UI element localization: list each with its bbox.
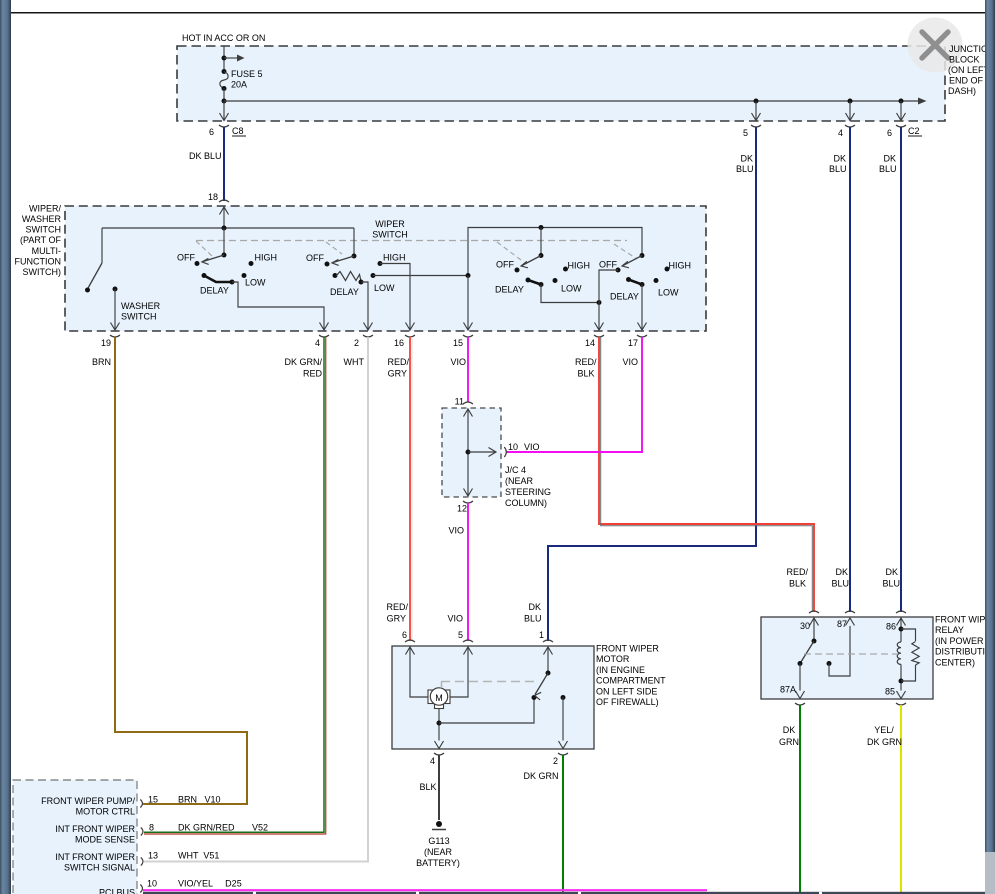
switch 1 DELAY contact bar [202,273,207,278]
svg-text:BLU: BLU [829,164,847,174]
svg-text:BLK: BLK [419,782,436,792]
wire bus horizontal [224,100,919,102]
wire DK GRN relay 87A down [799,705,801,894]
svg-text:11: 11 [455,397,464,407]
module bump pin 8 [141,828,143,836]
svg-text:DK: DK [833,154,846,164]
module bump pin 15 [140,800,142,808]
module bump pin 10 [140,885,142,893]
wire drop pin 5 [755,101,757,120]
motor M symbol [428,690,434,704]
node bus2 sw3 tap [539,225,544,230]
svg-text:1: 1 [539,630,544,640]
wire VIO/YEL bus [143,889,707,891]
connector bump pin 6 C8 [219,125,229,127]
top window border line [11,12,985,14]
svg-text:GRN: GRN [779,737,799,747]
connector bumps bottom of switch box [110,335,120,337]
node bus2 pin15 junction [466,273,471,278]
relay bumps top [809,611,819,613]
relay bumps bottom [795,703,805,705]
svg-text:8: 8 [149,823,154,833]
svg-text:BLU: BLU [882,579,900,589]
junction block box [177,46,945,121]
switch 2 HIGH contact [378,261,383,266]
switch 3 HIGH contact [563,267,568,272]
linkage diag sw1 [196,241,212,256]
wire fuse to bus [223,89,225,102]
wire DK BLU junction pin4 to relay 87 [849,127,851,612]
svg-text:LOW: LOW [245,278,266,288]
svg-text:HOT IN ACC OR ON: HOT IN ACC OR ON [182,33,265,43]
wire drop pin 6 [900,101,902,120]
svg-text:VIO: VIO [447,614,463,624]
svg-text:86: 86 [886,622,896,632]
svg-text:BLU: BLU [831,579,849,589]
motor park contact branch [439,698,534,724]
wire BLK motor pin4 to ground [438,755,440,820]
svg-text:2: 2 [354,338,359,348]
switch 2 OFF contact [325,262,330,267]
svg-text:RED/: RED/ [386,602,408,612]
relay coil pin86 [897,618,906,626]
svg-text:DK: DK [885,567,898,577]
node bus tap 4 [848,99,853,104]
wire DK BLU fuse to switch pin 18 [223,127,225,201]
relay NO contact to 87 [827,661,832,666]
motor linkage dashed [441,681,537,683]
mechanical linkage dashed [196,240,627,242]
svg-text:DK: DK [835,567,848,577]
svg-text:DK GRN/RED V52: DK GRN/RED V52 [178,823,268,833]
wire run contact to pin2 [562,698,564,741]
wire pin14 drop [598,303,600,330]
svg-text:J/C 4: J/C 4 [505,465,526,475]
svg-text:(PART OF: (PART OF [20,235,62,245]
washer switch contact [113,287,118,292]
svg-text:C8: C8 [232,126,244,136]
switch 4 arm [623,256,642,266]
wire pin15 drop [467,276,469,330]
fuse F5 20A [222,69,227,74]
svg-text:GRY: GRY [387,614,406,624]
svg-text:BRN V10: BRN V10 [178,795,221,805]
close button [908,18,963,73]
svg-text:WIPER: WIPER [375,219,405,229]
svg-text:OFF: OFF [599,260,617,270]
svg-text:DK: DK [883,154,896,164]
JC4 pin 10 bump [504,447,506,457]
switch 1 arm [203,255,224,262]
switch 2 arm [333,256,354,263]
svg-text:10: 10 [147,879,157,889]
switch 3 pivot feed [540,228,542,256]
svg-text:10: 10 [508,442,518,452]
switch 3 LOW contact [553,278,558,283]
svg-text:ON LEFT SIDE: ON LEFT SIDE [596,686,657,696]
connector bump pin 5 C2 [751,125,761,127]
motor run contact [561,695,566,700]
wire DK BLU junction pin5 to motor pin1 [548,127,756,641]
svg-text:DK: DK [528,602,541,612]
svg-text:15: 15 [453,338,463,348]
wire sw4 delay to pin 17 [641,285,643,330]
svg-text:LOW: LOW [658,288,679,298]
svg-text:18: 18 [208,192,218,202]
svg-text:DELAY: DELAY [610,292,639,302]
svg-text:14: 14 [585,338,595,348]
wire sw1 delay to pin 4 [232,282,324,330]
svg-text:FUSE 5: FUSE 5 [231,69,263,79]
wire RED/GRY pin16 to motor pin6 [409,337,411,641]
svg-text:SWITCH): SWITCH) [23,267,62,277]
svg-text:DELAY: DELAY [495,285,524,295]
switch 1 pivot feed [223,228,225,255]
washer switch feed [101,228,103,263]
svg-text:BLOCK: BLOCK [949,55,980,65]
svg-text:87: 87 [837,619,847,629]
svg-text:BLK: BLK [789,579,806,589]
relay parallel resistor [901,629,916,641]
motor pin5 internal [464,647,473,655]
body control module box (bottom left) [13,780,137,894]
svg-text:DK GRN: DK GRN [867,737,902,747]
svg-text:FUNCTION: FUNCTION [15,256,62,266]
switch 3 DELAY contact bar [526,278,531,283]
switch 1 LOW contact [242,273,247,278]
JC4 internal wire [464,409,473,417]
svg-text:OFF: OFF [306,253,324,263]
JC4 node [466,450,471,455]
switch 1 OFF contact [195,261,200,266]
svg-text:STEERING: STEERING [505,487,551,497]
svg-text:OF FIREWALL): OF FIREWALL) [596,697,659,707]
wiper/washer switch box [65,206,706,331]
svg-text:4: 4 [315,338,320,348]
washer switch arm [88,263,103,289]
svg-text:(IN POWER: (IN POWER [935,636,984,646]
switch 4 OFF contact [616,268,621,273]
svg-text:19: 19 [101,338,111,348]
svg-text:DASH): DASH) [948,86,976,96]
svg-text:15: 15 [148,795,158,805]
wire feed into fuse [223,46,225,71]
svg-text:WHT: WHT [344,357,365,367]
module bump pin 13 [141,858,143,866]
svg-text:G113: G113 [428,836,449,846]
svg-text:MOTOR: MOTOR [596,654,630,664]
switch 4 LOW contact [654,278,659,283]
svg-text:RELAY: RELAY [935,625,964,635]
wire BRN pin19 to module pin15 [115,337,247,804]
relay arm to 87A [799,664,801,691]
front wiper relay box [761,617,933,699]
relay switch arm [800,641,814,664]
svg-text:COLUMN): COLUMN) [505,498,547,508]
arrow tap right [224,57,238,59]
svg-text:20A: 20A [231,80,247,90]
wire WHT pin2 to module pin13 [144,337,368,862]
svg-text:COMPARTMENT: COMPARTMENT [596,676,666,686]
linkage diag sw4 [614,244,637,259]
svg-text:12: 12 [457,504,467,514]
svg-text:VIO: VIO [524,442,540,452]
switch 2 DELAY resistor [333,273,338,278]
node bus left [222,99,227,104]
node bus tap 6 [899,99,904,104]
svg-text:SWITCH SIGNAL: SWITCH SIGNAL [64,863,135,873]
relay linkage dashed [804,653,898,655]
svg-text:2: 2 [553,756,558,766]
wire sw2 HIGH to pin 16 [380,264,410,330]
svg-text:RED: RED [303,369,323,379]
wire sw4 OFF to pin14 node [599,270,618,303]
svg-text:4: 4 [838,128,843,138]
switch 1 HIGH contact [249,261,254,266]
svg-text:YEL/: YEL/ [874,725,894,735]
svg-text:C2: C2 [908,126,920,136]
switch 2 pivot feed [353,228,355,256]
svg-text:(ON LEFT: (ON LEFT [948,65,990,75]
connector bump pin 18 [219,200,229,202]
svg-text:MOTOR CTRL: MOTOR CTRL [76,807,135,817]
svg-text:END OF: END OF [949,76,984,86]
svg-text:LOW: LOW [561,284,582,294]
motor bottom to pin4 [438,709,440,741]
svg-text:BLU: BLU [879,164,897,174]
svg-text:WHT V51: WHT V51 [178,851,219,861]
svg-text:85: 85 [885,687,895,697]
switch 3 OFF contact [515,268,520,273]
svg-text:CENTER): CENTER) [935,657,975,667]
svg-text:(NEAR: (NEAR [505,476,534,486]
JC4 pin 12 bump [463,501,473,503]
svg-text:(NEAR: (NEAR [424,847,453,857]
svg-text:5: 5 [743,128,748,138]
node bus1 pin18 [222,226,227,231]
svg-text:GRY: GRY [388,369,407,379]
svg-text:RED/: RED/ [786,567,808,577]
wire bus1 [102,227,354,229]
pin 18 entry arrow [220,207,229,215]
wire sw2 delay to pin 2 [361,282,368,330]
svg-text:INT FRONT WIPER: INT FRONT WIPER [55,852,135,862]
wire RED/BLK pin14 to relay 30 [599,337,814,612]
svg-text:HIGH: HIGH [669,261,692,271]
linkage diag sw2 [326,242,342,254]
svg-text:INT FRONT WIPER: INT FRONT WIPER [55,824,135,834]
svg-text:HIGH: HIGH [255,253,278,263]
svg-text:MULTI-: MULTI- [32,246,61,256]
wire DK BLU junction pin6 to relay 86 [900,127,902,612]
switch 4 pivot feed [640,253,645,258]
svg-text:6: 6 [402,630,407,640]
svg-text:BLU: BLU [736,164,754,174]
svg-text:FRONT WIPER PUMP/: FRONT WIPER PUMP/ [41,796,135,806]
svg-text:DK GRN: DK GRN [523,771,558,781]
svg-text:30: 30 [800,621,810,631]
svg-text:PCI BUS: PCI BUS [99,888,135,894]
JC4 pin 11 bump [463,402,473,404]
svg-text:MODE SENSE: MODE SENSE [75,835,135,845]
switch 2 LOW contact [371,273,376,278]
svg-text:LOW: LOW [374,283,395,293]
wire fuse output drop [223,101,225,120]
svg-text:HIGH: HIGH [568,261,591,271]
svg-text:VIO: VIO [448,526,464,536]
switch 4 HIGH contact [665,267,670,272]
wire VIO pin17 to JC4 pin10 [506,337,642,452]
relay coil [897,642,901,664]
svg-text:FRONT WIPER: FRONT WIPER [596,644,659,654]
svg-text:RED/: RED/ [387,357,409,367]
svg-text:16: 16 [394,338,404,348]
svg-text:4: 4 [430,756,435,766]
switch 3 arm [522,256,541,266]
svg-text:BATTERY): BATTERY) [416,858,460,868]
wire sw2 LOW to pin15 node [373,275,468,277]
node fuse top tap [222,56,227,61]
node pin14 junction [597,300,602,305]
front wiper motor box [392,646,594,749]
JC4 branch to pin 10 [468,451,496,453]
wire bus2 [468,228,642,276]
ground G113 [436,821,442,827]
svg-text:6: 6 [887,128,892,138]
svg-text:M: M [435,693,443,703]
motor park switch arm [535,673,548,695]
svg-text:SWITCH: SWITCH [121,312,157,322]
wire YEL/DK GRN relay 85 down [900,705,902,894]
wire washer contact to pin 19 [114,289,116,330]
node bus tap 5 [754,99,759,104]
svg-text:VIO: VIO [450,357,466,367]
svg-text:WASHER: WASHER [121,301,161,311]
wire VIO pin15 to JC4 pin11 [467,337,469,402]
svg-text:SWITCH: SWITCH [26,225,62,235]
bottom dark band (next section) [143,892,985,894]
svg-text:BRN: BRN [92,357,111,367]
motor bumps bottom [434,753,444,755]
svg-text:SWITCH: SWITCH [372,230,408,240]
svg-text:DK: DK [740,154,753,164]
wire DK GRN motor pin2 down [562,755,564,894]
svg-text:13: 13 [148,851,158,861]
svg-text:HIGH: HIGH [383,253,406,263]
svg-text:DELAY: DELAY [330,287,359,297]
svg-text:(IN ENGINE: (IN ENGINE [596,665,645,675]
wire drop pin 4 [849,101,851,120]
svg-text:VIO: VIO [622,357,638,367]
motor bumps top [405,640,415,642]
svg-text:17: 17 [628,338,638,348]
left window sidebar [0,0,11,894]
svg-text:DK: DK [783,725,796,735]
svg-text:5: 5 [458,630,463,640]
connector bump pin 6 C2 [896,125,906,127]
junction connector J/C 4 box [442,408,501,497]
svg-text:VIO/YEL D25: VIO/YEL D25 [178,879,242,889]
svg-text:OFF: OFF [177,253,195,263]
svg-text:DK BLU: DK BLU [189,151,222,161]
wire sw3 delay to pin14 node [541,285,599,303]
svg-text:OFF: OFF [496,260,514,270]
motor pin1 internal [544,647,553,655]
svg-text:87A: 87A [780,685,796,695]
relay pin30 internal [810,618,819,626]
connector bump pin 4 C2 [845,125,855,127]
wire VIO JC4 pin12 to motor pin5 [467,503,469,641]
svg-text:RED/: RED/ [575,357,597,367]
svg-text:BLK: BLK [577,369,594,379]
wire DK GRN/RED pin4 to module pin8 [144,337,324,832]
motor pin6 internal [406,647,415,655]
svg-text:WIPER/: WIPER/ [29,203,62,213]
linkage diag sw3 [497,242,521,260]
svg-text:WASHER: WASHER [22,214,62,224]
svg-text:DELAY: DELAY [200,286,229,296]
right scrollbar [985,0,995,894]
svg-text:6: 6 [209,127,214,137]
svg-text:DK GRN/: DK GRN/ [284,357,322,367]
svg-text:BLU: BLU [524,614,542,624]
switch 4 DELAY contact bar [626,277,631,282]
